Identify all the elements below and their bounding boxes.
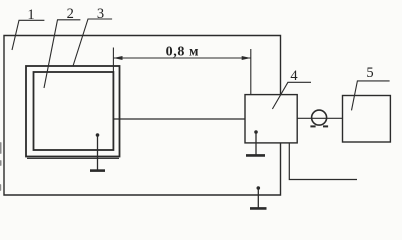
label 1: [12, 7, 44, 50]
display inner square 2 (screen): [34, 72, 114, 150]
scan smudges on left page edge: [0, 142, 2, 191]
room boundary rectangle 1 (right side interrupted by box 4): [4, 36, 281, 196]
coil left foot: [310, 125, 315, 127]
dimension extension line right (drop into box 4): [250, 49, 252, 95]
svg-text:3: 3: [97, 6, 104, 22]
coil circle symbol on wire: [312, 110, 327, 125]
wire: box 4 to box 5 through coil: [297, 117, 342, 119]
ground at room boundary bottom: [250, 186, 267, 208]
ground under box 4: [246, 130, 265, 155]
label 2: [44, 6, 80, 88]
label 3: [73, 6, 112, 66]
dimension arrow left: [113, 56, 122, 60]
label 5: [352, 65, 390, 110]
svg-text:5: 5: [366, 65, 373, 81]
meter box 5: [343, 96, 391, 143]
display outer square 3: [26, 66, 120, 157]
svg-text:4: 4: [290, 68, 298, 84]
wire: box 4 lower-right drop and run to the right: [289, 143, 357, 180]
label 4: [272, 68, 311, 109]
outer square thick scanned bottom edge: [27, 157, 119, 159]
svg-text:0,8 м: 0,8 м: [166, 45, 200, 60]
dimension arrow right: [242, 56, 251, 60]
wire: screen to sensor box 4: [113, 118, 245, 120]
sensor box 4: [245, 95, 297, 143]
dimension extension line left (at screen surface): [112, 48, 114, 73]
dimension line 0,8 m: [113, 57, 250, 59]
ground under display: [90, 133, 105, 170]
coil right foot: [323, 125, 328, 127]
